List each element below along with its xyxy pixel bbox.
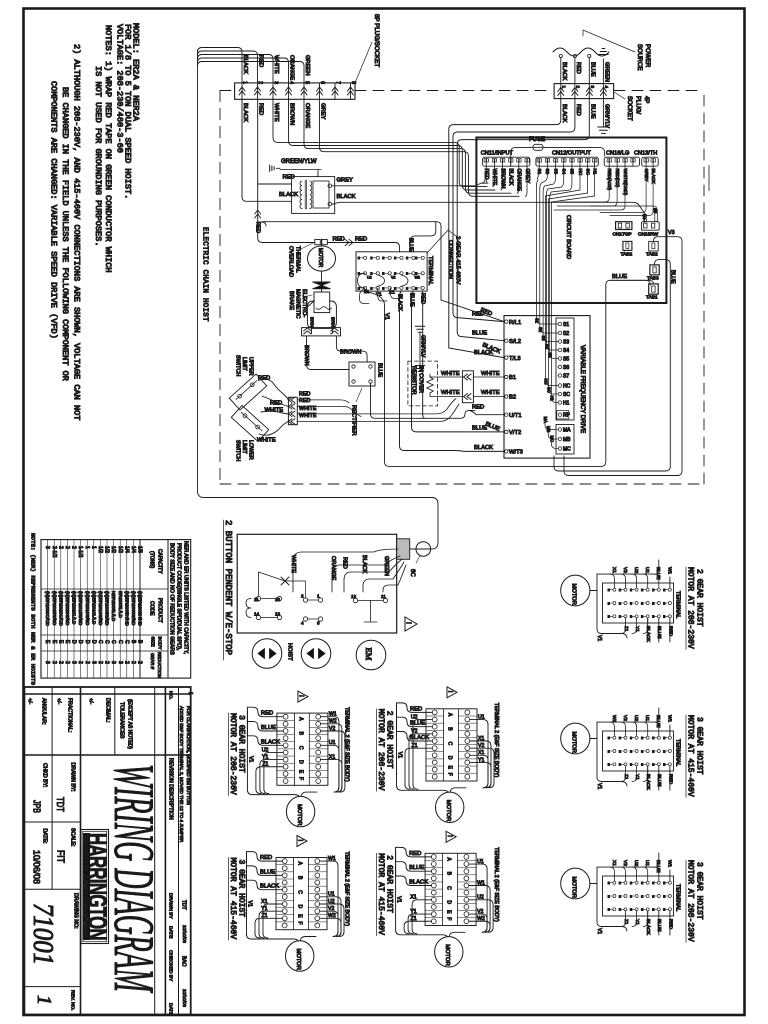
- svg-text:SWITCH: SWITCH: [235, 355, 241, 376]
- svg-text:E: E: [370, 286, 372, 290]
- power wire labels upper: [561, 62, 610, 82]
- svg-text:MOTOR: MOTOR: [444, 944, 450, 965]
- svg-text:U2: U2: [633, 567, 639, 573]
- svg-text:E: E: [608, 588, 610, 592]
- wire ORANGE 8P pin5 to CN11: [304, 99, 511, 193]
- svg-text:LIMIT: LIMIT: [241, 440, 247, 454]
- svg-text:RED: RED: [409, 851, 421, 857]
- svg-text:3: 3: [590, 86, 595, 89]
- wire BROWN right brake to rectifier: [336, 336, 367, 362]
- svg-text:X1: X1: [410, 895, 416, 901]
- svg-text:V1: V1: [596, 783, 602, 789]
- svg-text:CHECKED BY: CHECKED BY: [168, 950, 174, 982]
- svg-text:SC: SC: [563, 392, 570, 398]
- svg-text:3 GEAR HOIST: 3 GEAR HOIST: [695, 862, 704, 920]
- svg-text:E: E: [652, 601, 654, 605]
- svg-text:S/L2: S/L2: [509, 339, 521, 345]
- revision row content: [179, 692, 193, 1007]
- svg-text:E: E: [630, 749, 632, 753]
- svg-text:BLACK: BLACK: [397, 294, 403, 312]
- svg-text:V1: V1: [397, 752, 403, 758]
- svg-text:2) ALTHOUGH 208-230V, AND 415-: 2) ALTHOUGH 208-230V, AND 415-460V CONNE…: [72, 44, 82, 420]
- svg-text:BLACK: BLACK: [561, 62, 567, 81]
- connector CN11/INPUT: [481, 151, 530, 167]
- pendant contact block hoist2: [301, 594, 323, 626]
- svg-text:GRN/YLV: GRN/YLV: [603, 104, 609, 128]
- svg-text:GRN/YLV: GRN/YLV: [420, 335, 426, 358]
- motor diagram L1 right wires: [301, 712, 345, 798]
- svg-text:V1: V1: [247, 756, 253, 762]
- svg-text:E: E: [608, 763, 610, 767]
- capacity table data: [44, 546, 142, 664]
- svg-text:X1: X1: [478, 750, 484, 756]
- svg-text:D: D: [446, 900, 452, 904]
- 4P pin 4: [600, 84, 609, 99]
- title block outline: [24, 687, 190, 1015]
- 8P pin 8: [348, 81, 357, 99]
- svg-text:CN16/LG: CN16/LG: [606, 151, 629, 157]
- svg-text:E: E: [663, 763, 665, 767]
- svg-text:E: E: [608, 736, 610, 740]
- svg-text:BLACK: BLACK: [242, 103, 248, 122]
- motor diagram M1 right wires: [450, 714, 494, 792]
- svg-text:ER2005L/LD: ER2005L/LD: [118, 591, 123, 618]
- svg-text:SCALE:: SCALE:: [70, 828, 76, 846]
- svg-text:D: D: [297, 905, 303, 909]
- svg-text:E: E: [641, 588, 643, 592]
- motor diagram L2 V1 wire: [247, 855, 300, 943]
- CN16 pin 2: [615, 159, 619, 167]
- variable frequency drive outline: [504, 316, 590, 459]
- svg-text:BLACK: BLACK: [508, 169, 514, 187]
- svg-text:E: E: [619, 615, 621, 619]
- svg-text:1/4: 1/4: [123, 546, 129, 553]
- svg-text:BLUE: BLUE: [260, 869, 275, 875]
- svg-text:E: E: [652, 749, 654, 753]
- VFD terminal U/T1: [505, 413, 522, 419]
- svg-text:ELECTRO-: ELECTRO-: [301, 289, 307, 317]
- wires chevron to B1 B2: [473, 371, 504, 397]
- leader 8P label: [355, 42, 372, 83]
- motor diagram L2 motor: [286, 941, 314, 971]
- svg-text:WHITE: WHITE: [257, 438, 276, 444]
- svg-text:CN15RW: CN15RW: [638, 232, 659, 238]
- wires terminal block bottom ZYX: [360, 288, 400, 304]
- svg-text:BROWN: BROWN: [289, 103, 295, 125]
- svg-text:71001: 71001: [27, 903, 58, 965]
- svg-text:3: 3: [71, 661, 77, 664]
- compact motor diagram R2 terminal: [603, 731, 674, 771]
- ground GRN/YLV below 4P: [598, 99, 610, 134]
- svg-text:MB: MB: [546, 426, 551, 432]
- svg-text:ANGULAR:: ANGULAR:: [41, 698, 47, 725]
- motor diagram M2 jumper wires left: [404, 895, 431, 934]
- svg-text:BLACK: BLACK: [561, 104, 567, 123]
- svg-text:E: E: [663, 881, 665, 885]
- svg-text:E: E: [641, 615, 643, 619]
- svg-text:W1: W1: [666, 715, 672, 723]
- svg-text:S5: S5: [563, 357, 569, 363]
- svg-text:(N)ER2005S/SD: (N)ER2005S/SD: [105, 591, 110, 626]
- svg-text:E: E: [630, 881, 632, 885]
- svg-text:GEAR #: GEAR #: [150, 653, 155, 670]
- wire BLUE power 4P to S/L2: [457, 99, 589, 341]
- svg-text:RED: RED: [575, 104, 581, 116]
- svg-text:S3: S3: [541, 336, 546, 342]
- lower limit switch: [231, 406, 268, 442]
- svg-text:BLACK: BLACK: [645, 626, 651, 643]
- pendant EM contacts: [351, 594, 388, 622]
- terminal block contacts: [358, 256, 425, 290]
- svg-text:1: 1: [561, 86, 566, 89]
- svg-text:2 GEAR HOIST: 2 GEAR HOIST: [695, 569, 704, 627]
- svg-text:E: E: [370, 256, 372, 260]
- VFD terminal RP: [557, 411, 571, 419]
- svg-text:U1: U1: [328, 892, 335, 898]
- svg-text:E: E: [652, 894, 654, 898]
- svg-text:X1: X1: [611, 567, 617, 573]
- svg-text:BLUE: BLUE: [410, 721, 425, 727]
- tab terminal TAB1: [646, 284, 658, 300]
- wire limit RED pair to U/T1 run: [297, 400, 361, 417]
- svg-text:V2: V2: [622, 860, 628, 866]
- compact motor diagram R1 motor: [561, 575, 597, 606]
- electro-magnetic brake coil: [314, 289, 332, 313]
- svg-text:W1: W1: [666, 860, 672, 868]
- svg-text:BLUE: BLUE: [409, 293, 415, 307]
- svg-text:FUSE: FUSE: [529, 137, 545, 143]
- CN13 wire labels: [644, 169, 656, 185]
- svg-text:E: E: [641, 908, 643, 912]
- svg-text:S2: S2: [538, 327, 543, 333]
- VFD terminal S6: [558, 365, 570, 371]
- VFD terminal W/T3: [505, 450, 523, 456]
- svg-text:1/2: 1/2: [97, 546, 103, 553]
- svg-text:MOTOR AT 415-460V: MOTOR AT 415-460V: [228, 858, 237, 940]
- VFD terminal T/L3: [505, 356, 521, 362]
- svg-text:E: E: [652, 763, 654, 767]
- svg-text:GREEN: GREEN: [383, 556, 389, 576]
- compact motor diagram R2 motor: [561, 723, 597, 754]
- svg-text:C: C: [97, 640, 103, 644]
- svg-text:TERMINAL 2 (E&F SIZE BODY): TERMINAL 2 (E&F SIZE BODY): [493, 847, 499, 922]
- svg-text:UPPER: UPPER: [248, 357, 254, 376]
- svg-text:E: E: [652, 881, 654, 885]
- svg-text:U2: U2: [633, 715, 639, 721]
- svg-text:TDT: TDT: [54, 797, 65, 812]
- svg-text:E: E: [652, 588, 654, 592]
- svg-text:E: E: [641, 763, 643, 767]
- CN16 wire drops: [554, 166, 625, 210]
- VFD inner labels HC SC H1: [544, 379, 555, 402]
- svg-text:3: 3: [317, 621, 320, 626]
- svg-text:E: E: [641, 749, 643, 753]
- svg-text:C: C: [297, 746, 303, 750]
- VFD terminal MB: [558, 437, 571, 443]
- svg-text:3: 3: [44, 661, 50, 664]
- svg-text:NOTES: 1) WRAP RED TAPE ON GRE: NOTES: 1) WRAP RED TAPE ON GREEN CONDUCT…: [103, 25, 113, 273]
- compact motor diagram R3 labels: [686, 860, 704, 942]
- svg-text:X1: X1: [611, 860, 617, 866]
- motor diagram L1 labels: [228, 713, 245, 795]
- svg-text:VOLTAGE: 208-230/460-3-60: VOLTAGE: 208-230/460-3-60: [115, 24, 125, 153]
- svg-text:BLUE: BLUE: [261, 725, 276, 731]
- power source terminals: [559, 54, 591, 83]
- svg-text:DRAWING NO:: DRAWING NO:: [73, 893, 79, 929]
- VFD terminal R/L1: [505, 320, 522, 326]
- svg-text:14: 14: [254, 612, 260, 617]
- svg-text:S6: S6: [563, 365, 569, 371]
- svg-text:U2: U2: [477, 895, 484, 901]
- svg-text:REVISION DESCRIPTION: REVISION DESCRIPTION: [168, 758, 174, 820]
- hoist button down: [301, 639, 331, 669]
- capacity table: [41, 540, 191, 679]
- svg-text:11: 11: [381, 594, 386, 599]
- pendant wires: [293, 549, 406, 592]
- power source break symbol: [553, 48, 609, 56]
- motor M1: [308, 239, 336, 271]
- svg-text:2: 2: [97, 661, 103, 664]
- svg-text:T/L3: T/L3: [509, 356, 521, 362]
- svg-text:BAO: BAO: [181, 956, 187, 967]
- svg-text:NER2005L/LD: NER2005L/LD: [111, 591, 116, 622]
- wire upper switch RED 1: [258, 376, 288, 400]
- CN11 pin 6: [525, 159, 529, 167]
- svg-text:SOCKET: SOCKET: [626, 96, 632, 121]
- svg-text:D: D: [297, 760, 303, 764]
- svg-text:1/2: 1/2: [117, 546, 123, 553]
- svg-text:E: E: [406, 286, 408, 290]
- label 2 BUTTON PENDENT W/E-STOP: [223, 520, 233, 660]
- svg-text:W2: W2: [611, 715, 617, 723]
- wire limit WHITE pair right: [297, 399, 459, 422]
- svg-text:E: E: [406, 272, 408, 276]
- svg-text:10/10/08: 10/10/08: [182, 925, 187, 943]
- svg-text:CONNECTION: CONNECTION: [447, 240, 453, 279]
- svg-text:F: F: [297, 777, 303, 780]
- svg-text:Y1: Y1: [634, 919, 640, 925]
- svg-text:+/-: +/-: [56, 698, 62, 704]
- svg-text:E: E: [358, 256, 360, 260]
- 4P lower wire labels: [561, 104, 610, 128]
- 4P pin 2: [572, 84, 581, 99]
- svg-text:OVERLOAD: OVERLOAD: [288, 246, 294, 277]
- svg-text:BRN: BRN: [309, 317, 315, 328]
- motor diagram M2 labels: [376, 853, 393, 935]
- compact motor diagram R2 top wires: [597, 708, 672, 736]
- svg-text:BRN: BRN: [329, 317, 335, 328]
- tab terminal TAB3: [647, 265, 659, 282]
- svg-text:M4: M4: [642, 214, 646, 219]
- svg-text:R/L1: R/L1: [509, 320, 521, 326]
- motor diagram L1 motor: [286, 796, 314, 826]
- CN13 wire drops: [600, 166, 653, 215]
- svg-text:WHITE: WHITE: [273, 103, 279, 122]
- motor diagram M2 feed wires: [396, 847, 432, 885]
- svg-text:RED: RED: [299, 392, 310, 398]
- svg-text:Z1: Z1: [411, 743, 417, 749]
- VFD terminal S5: [558, 357, 570, 363]
- svg-text:BLACK: BLACK: [261, 739, 280, 745]
- svg-text:U2: U2: [262, 747, 269, 753]
- svg-text:ORANGE: ORANGE: [304, 103, 310, 128]
- VFD terminal MA: [558, 428, 571, 434]
- svg-text:E: E: [415, 256, 417, 260]
- svg-text:E: E: [641, 736, 643, 740]
- chevron on RED vertical: [255, 210, 261, 218]
- svg-text:S3: S3: [563, 340, 569, 346]
- wire BLACK 8P pin1 to transformer: [242, 99, 292, 201]
- power source ground (GREEN wire top): [599, 49, 609, 84]
- svg-text:X1: X1: [389, 290, 395, 295]
- svg-text:V2: V2: [622, 567, 628, 573]
- motor diagram M1 warning triangle: [447, 687, 457, 698]
- compact motor diagram R2 labels: [686, 715, 704, 797]
- svg-text:U2: U2: [411, 714, 418, 720]
- svg-text:(N)ER2030C/CD: (N)ER2030C/CD: [45, 591, 50, 627]
- connector CN12/OUTPUT: [536, 151, 598, 167]
- svg-text:E: E: [652, 908, 654, 912]
- wire BLUE to TAB1: [610, 274, 653, 284]
- svg-text:S1: S1: [535, 318, 540, 324]
- svg-text:U1: U1: [644, 860, 650, 866]
- svg-text:W1: W1: [328, 856, 336, 862]
- svg-text:12: 12: [275, 597, 281, 602]
- upper limit switch: [229, 374, 266, 410]
- 8P lower wire labels: [242, 103, 326, 128]
- svg-text:D: D: [71, 640, 77, 644]
- svg-text:ORANGE: ORANGE: [289, 55, 295, 80]
- svg-text:V3: V3: [668, 230, 675, 236]
- svg-text:4: 4: [301, 621, 304, 626]
- motor diagram M2 warning triangle: [446, 831, 456, 842]
- 8P pin 5: [301, 81, 310, 99]
- svg-text:MOTOR: MOTOR: [571, 877, 577, 898]
- svg-text:BE CHANGED IN THE FIELD UNLESS: BE CHANGED IN THE FIELD UNLESS THE FOLLO…: [60, 87, 70, 381]
- pendant wire labels: [290, 555, 389, 581]
- transformer T1: [292, 177, 335, 214]
- CN12 pin 7: [586, 159, 590, 167]
- motor diagram M1 terminal block: [426, 709, 477, 781]
- svg-text:WHITE: WHITE: [481, 371, 500, 377]
- connector CN17GP: [613, 222, 632, 238]
- compact motor diagram R1 labels: [686, 567, 704, 649]
- svg-text:E: E: [630, 736, 632, 740]
- capacity table titles: [169, 541, 189, 655]
- svg-text:E: E: [663, 588, 665, 592]
- svg-text:MOTOR AT 415-460V: MOTOR AT 415-460V: [686, 715, 695, 797]
- svg-text:4P: 4P: [643, 96, 649, 103]
- svg-text:BLUE: BLUE: [655, 715, 661, 728]
- svg-text:TERMINAL 2 (E&F SIZE BODY): TERMINAL 2 (E&F SIZE BODY): [344, 707, 350, 782]
- svg-text:V2: V2: [477, 909, 483, 915]
- svg-text:X1: X1: [261, 899, 267, 905]
- pendant cable ferrule: [397, 539, 410, 560]
- VFD terminal HC: [558, 384, 571, 390]
- wire upper switch RED 2: [262, 396, 288, 407]
- harrington logo: [81, 830, 113, 944]
- motor diagram L2 terminal block: [276, 858, 327, 930]
- CN16 pin 1: [607, 159, 611, 167]
- svg-text:C: C: [446, 886, 452, 890]
- CN13 pin 2: [651, 159, 655, 167]
- svg-text:U1: U1: [477, 859, 484, 865]
- svg-text:E: E: [630, 615, 632, 619]
- svg-text:S5: S5: [548, 353, 553, 359]
- svg-text:BLUE: BLUE: [472, 426, 487, 432]
- motor diagram M1 labels: [376, 709, 393, 791]
- svg-text:DECIMAL:: DECIMAL:: [105, 698, 111, 723]
- svg-text:W1: W1: [477, 880, 485, 886]
- svg-text:E: E: [641, 601, 643, 605]
- svg-text:WHITE: WHITE: [481, 390, 500, 396]
- wire GREY 8P pin6 to CN11: [320, 99, 520, 196]
- svg-text:(N)ER2020C/CD: (N)ER2020C/CD: [58, 591, 63, 627]
- compact motor diagram R1 loop: [596, 574, 627, 641]
- terminal block 2-GEAR: [356, 252, 427, 291]
- svg-text:MOTOR: MOTOR: [571, 732, 577, 753]
- motor diagram L1 V1 wire: [247, 711, 300, 799]
- wire RED branch bus y222: [258, 222, 504, 322]
- svg-text:(EXCEPT AS NOTED): (EXCEPT AS NOTED): [127, 699, 133, 749]
- svg-text:GREEN/YLW: GREEN/YLW: [281, 159, 317, 165]
- svg-text:2: 2: [51, 661, 57, 664]
- svg-text:MOTOR: MOTOR: [295, 949, 301, 970]
- svg-text:Y1: Y1: [261, 906, 267, 912]
- svg-text:10/06/08: 10/06/08: [32, 850, 42, 884]
- CN11 pin 1: [484, 159, 488, 167]
- wire RED power 4P to R/L1: [453, 99, 575, 322]
- svg-text:W1: W1: [329, 712, 337, 718]
- svg-text:1/2: 1/2: [110, 546, 116, 553]
- svg-text:BLUE: BLUE: [612, 274, 627, 280]
- svg-text:C: C: [104, 640, 110, 644]
- svg-text:TERMINAL: TERMINAL: [427, 256, 433, 286]
- CN12 wires to VFD terminals: [537, 166, 595, 402]
- VFD inner labels S1-S5: [535, 318, 553, 358]
- svg-text:MA: MA: [543, 417, 548, 423]
- svg-text:BLACK: BLACK: [645, 919, 651, 936]
- svg-text:FRACTIONAL:: FRACTIONAL:: [67, 698, 73, 732]
- CN16 pin 4: [631, 159, 635, 167]
- wire BROWN 8P pin4 to CN11: [289, 99, 496, 190]
- 8P pin 7: [332, 81, 341, 99]
- svg-text:X1: X1: [329, 754, 335, 760]
- svg-text:DATE:: DATE:: [42, 829, 48, 844]
- wires resistor to chevrons WHITE: [430, 371, 462, 397]
- tolerances block: [24, 687, 190, 1015]
- svg-text:HC: HC: [563, 384, 571, 390]
- svg-text:E: E: [608, 894, 610, 898]
- svg-text:V2: V2: [391, 276, 395, 280]
- svg-text:11: 11: [254, 597, 259, 602]
- svg-text:2: 2: [104, 661, 110, 664]
- svg-text:MOTOR AT 208-230V: MOTOR AT 208-230V: [686, 860, 695, 942]
- drawn-by cells: [24, 755, 80, 929]
- svg-text:GREEN: GREEN: [603, 62, 609, 82]
- pendant enclosure 2-button: [237, 534, 397, 633]
- svg-text:2-1/2: 2-1/2: [51, 546, 57, 558]
- svg-text:V/T2: V/T2: [509, 430, 521, 436]
- svg-text:3: 3: [90, 661, 96, 664]
- svg-text:MB: MB: [563, 437, 571, 443]
- svg-text:ADDED E&F BODY TERMINAL 2, MOV: ADDED E&F BODY TERMINAL 2, MOVED THE 12 …: [179, 706, 184, 843]
- svg-text:W2: W2: [329, 719, 337, 725]
- svg-text:3: 3: [44, 546, 50, 549]
- svg-text:ORANGE: ORANGE: [330, 556, 336, 581]
- svg-text:RED: RED: [420, 293, 426, 304]
- svg-text:W1: W1: [666, 567, 672, 575]
